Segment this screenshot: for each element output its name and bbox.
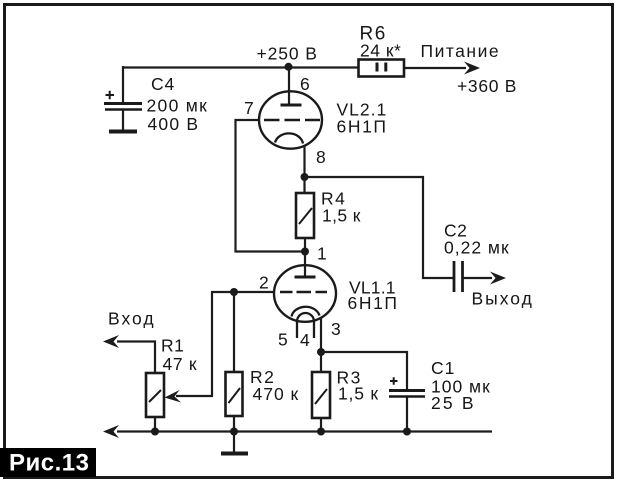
- junction R2/rail: [230, 428, 238, 436]
- svg-text:+250 В: +250 В: [257, 44, 318, 64]
- VL2.1 cathode: [275, 133, 303, 143]
- svg-text:Питание: Питание: [421, 41, 501, 61]
- C1 value label: [431, 358, 491, 413]
- wire node3 down to R3: [320, 352, 322, 372]
- svg-text:5: 5: [278, 330, 288, 350]
- ground (chassis under R2): [221, 432, 248, 454]
- svg-text:470 к: 470 к: [253, 384, 300, 404]
- R4 value label: [321, 189, 361, 226]
- capacitor C1: [389, 377, 425, 431]
- svg-text:1,5 к: 1,5 к: [338, 384, 379, 404]
- wire anode lead VL1.1 pin 1: [304, 252, 306, 277]
- svg-text:1,5 к: 1,5 к: [322, 206, 361, 226]
- junction grid node to R2: [230, 288, 238, 296]
- wire +250V rail right to power arrow: [404, 67, 466, 69]
- svg-text:R1: R1: [161, 336, 184, 356]
- resistor R6: [359, 60, 405, 77]
- junction R3/rail: [317, 428, 325, 436]
- resistor R4: [296, 177, 314, 252]
- triode VL1.1 envelope: [274, 265, 336, 322]
- VL2.1 grid (dashed): [264, 119, 320, 121]
- R1 value label: [161, 336, 197, 375]
- svg-text:6Н1П: 6Н1П: [348, 293, 399, 313]
- VL2.1 anode plate: [281, 104, 302, 107]
- wire +250V rail left: [123, 66, 358, 68]
- op wire anode lead VL2.1 pin 6: [288, 67, 290, 104]
- R2 value label: [250, 367, 299, 404]
- resistor R3: [312, 372, 330, 431]
- potentiometer R1: [146, 373, 181, 431]
- svg-text:0,22 мк: 0,22 мк: [444, 238, 510, 258]
- svg-text:6Н1П: 6Н1П: [337, 117, 388, 137]
- C4 value label: [147, 74, 209, 134]
- svg-text:1: 1: [317, 244, 327, 264]
- svg-text:6: 6: [300, 74, 310, 94]
- junction node 1: [301, 248, 309, 256]
- svg-text:47 к: 47 к: [163, 354, 198, 374]
- junction +250V / anode VL2.1: [285, 63, 293, 71]
- output arrow (Выход): [490, 272, 506, 285]
- wire grid VL2.1 pin7 to node 1: [236, 120, 306, 252]
- svg-text:Вход: Вход: [108, 309, 156, 329]
- common rail (bottom): [117, 430, 492, 432]
- junction node 3: [317, 348, 325, 356]
- svg-text:4: 4: [300, 330, 310, 350]
- wire C2 to output arrow: [464, 277, 493, 279]
- wire node3 to C1: [321, 352, 407, 390]
- wire cathode VL1.1 pin 3: [320, 317, 322, 352]
- triode VL2.1 envelope: [259, 91, 322, 148]
- power arrow (Питание): [464, 62, 480, 75]
- svg-text:200 мк: 200 мк: [147, 96, 209, 116]
- svg-text:Выход: Выход: [472, 289, 534, 309]
- VL1.1 grid (dashed): [280, 291, 327, 293]
- R6 value label: [360, 24, 402, 61]
- svg-text:+360 В: +360 В: [457, 76, 517, 96]
- junction node 8: [301, 173, 309, 181]
- ground (chassis bar under C4): [109, 130, 137, 134]
- svg-text:400 В: 400 В: [148, 114, 200, 134]
- VL1.1 heater: [297, 313, 314, 338]
- figure caption Рис.13: [0, 448, 96, 477]
- wire node8 to C2 branch: [305, 177, 454, 278]
- svg-text:2: 2: [259, 273, 269, 293]
- svg-text:Рис.13: Рис.13: [9, 450, 89, 477]
- svg-text:3: 3: [331, 319, 341, 339]
- svg-text:C1: C1: [431, 358, 455, 378]
- svg-text:C4: C4: [151, 74, 175, 94]
- capacitor C4: [104, 66, 142, 130]
- wire grid VL1.1 pin2 to R1 wiper: [176, 292, 274, 396]
- common rail left arrow: [103, 425, 119, 438]
- wire cathode VL2.1 pin 8: [303, 145, 305, 177]
- wire node2 down to R2: [233, 292, 235, 372]
- svg-text:24 к*: 24 к*: [360, 41, 401, 61]
- VL1.1 anode plate: [295, 276, 316, 279]
- VL1.1 label: [348, 278, 399, 314]
- capacitor C2: [454, 261, 463, 292]
- junction R1/rail: [151, 428, 159, 436]
- svg-text:7: 7: [244, 98, 254, 118]
- VL2.1 label: [337, 100, 388, 137]
- input arrow (Вход): [103, 335, 119, 348]
- svg-text:8: 8: [316, 147, 326, 167]
- svg-text:25 В: 25 В: [431, 393, 476, 413]
- junction C1/rail: [403, 428, 411, 436]
- wire input to R1: [117, 342, 155, 374]
- C2 value label: [444, 221, 510, 258]
- resistor R2: [226, 372, 243, 431]
- R3 value label: [337, 368, 379, 404]
- VL1.1 cathode: [292, 307, 320, 317]
